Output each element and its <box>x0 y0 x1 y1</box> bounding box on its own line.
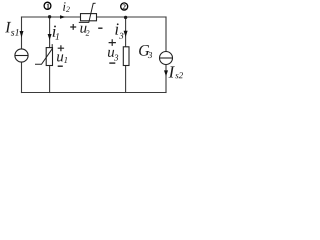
wire left branch upper <box>21 17 23 49</box>
arrow for current i1 <box>48 34 52 40</box>
wire bottom rail <box>22 92 167 94</box>
polarity - for u2 <box>98 27 102 29</box>
label i2 <box>63 2 65 11</box>
label u3 <box>108 50 114 57</box>
polarity + for u2 <box>70 24 76 30</box>
nonlinear resistor (u2 branch) <box>79 3 97 22</box>
wire branch 1 upper <box>49 17 51 48</box>
node 2 badge <box>121 3 128 10</box>
wire right branch lower <box>165 65 167 93</box>
wire branch 3 lower <box>125 66 127 93</box>
label G3 <box>139 45 149 56</box>
polarity - for u3 <box>109 62 115 64</box>
resistor G3 <box>123 47 129 66</box>
wire top rail left segment <box>22 16 81 18</box>
wire top rail right segment <box>97 16 167 18</box>
wire right branch upper <box>165 17 167 52</box>
polarity + for u1 <box>58 45 64 51</box>
label Is1 <box>5 22 11 32</box>
label i3 <box>115 23 118 34</box>
node 1 badge <box>44 2 51 9</box>
polarity - for u1 <box>58 65 63 67</box>
polarity + for u3 <box>109 39 116 46</box>
label u1 <box>57 54 63 61</box>
current source Is2 <box>160 52 173 65</box>
current source Is1 <box>15 49 28 62</box>
nonlinear resistor (u1 branch) <box>35 44 53 65</box>
wire left branch lower <box>21 62 23 92</box>
node 2 junction dot <box>124 16 127 19</box>
label i1 <box>53 26 56 37</box>
arrow for Is1 current <box>20 31 24 38</box>
node 1 junction dot <box>48 15 51 18</box>
label u2 <box>80 26 86 33</box>
wire branch 3 upper <box>125 17 127 47</box>
label Is2 <box>169 66 175 77</box>
wire branch 1 lower <box>49 66 51 93</box>
arrow for current i3 <box>124 31 128 37</box>
arrow for current i2 <box>60 15 66 19</box>
arrow for Is2 current <box>164 70 168 76</box>
